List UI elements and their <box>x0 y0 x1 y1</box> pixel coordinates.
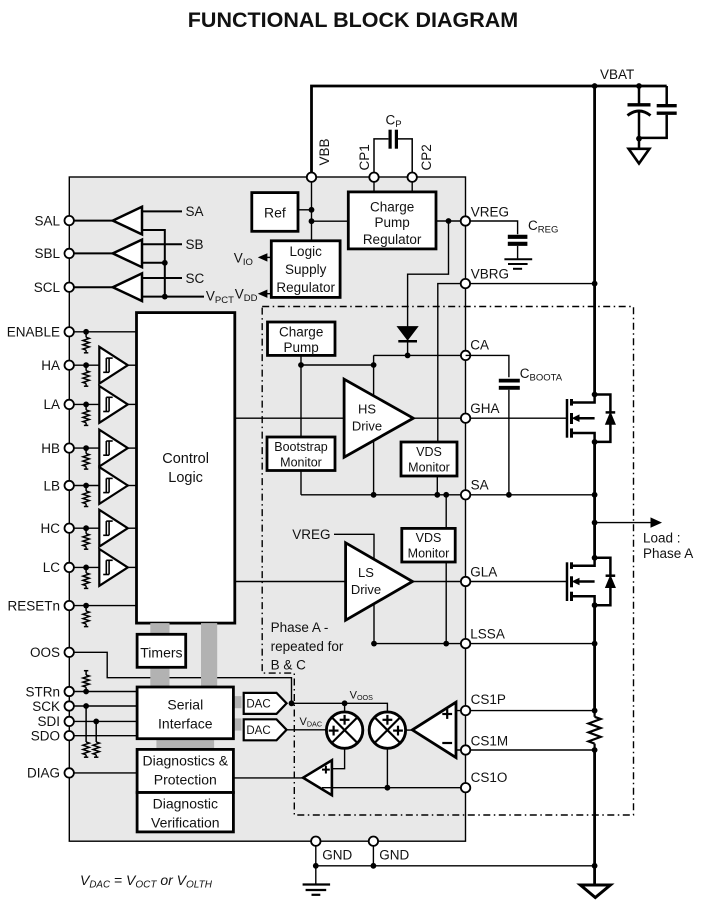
block Diagnostic Verification <box>137 793 233 832</box>
pin HA <box>65 361 74 370</box>
wire charge pump to CA rail <box>301 364 374 366</box>
wire SB input <box>142 243 182 245</box>
wire VDD arrow <box>267 293 272 295</box>
node VOOS junction <box>342 700 348 706</box>
node LA junction <box>83 402 89 408</box>
dac DAC1 <box>244 693 287 714</box>
schmitt buffer HA <box>99 347 128 384</box>
svg-text:VREG: VREG <box>292 527 330 542</box>
svg-text:DAC: DAC <box>246 699 270 711</box>
svg-text:Monitor: Monitor <box>408 460 450 474</box>
wire comparator out to diagnostics <box>233 777 303 779</box>
svg-text:Timers: Timers <box>140 644 182 660</box>
svg-text:CP2: CP2 <box>419 144 434 170</box>
svg-text:CS1M: CS1M <box>471 734 509 749</box>
wire VDAC <box>287 729 327 731</box>
block Diagnostics and Protection <box>137 749 233 792</box>
wire CA <box>374 354 466 356</box>
wire LB <box>74 485 100 487</box>
wire LA <box>74 403 100 405</box>
pin ENABLE <box>65 327 74 336</box>
summing node (right +) <box>369 712 405 748</box>
capacitor CBOOTA <box>499 379 520 383</box>
wire SCL to buffer <box>74 286 113 288</box>
svg-text:GND: GND <box>379 848 409 863</box>
bus bar control-timers <box>150 623 169 634</box>
node CS1P junction <box>592 708 598 714</box>
resistor pulldown LC <box>85 567 87 573</box>
wire CS1O <box>322 787 466 789</box>
node Ref junction <box>309 207 315 213</box>
schmitt buffer LA <box>99 386 128 423</box>
svg-text:VDS: VDS <box>416 445 442 459</box>
block Bootstrap Monitor <box>267 437 335 471</box>
wire phase rail HS-LS <box>593 442 596 558</box>
summing node (left +) <box>326 712 362 748</box>
svg-text:Pump: Pump <box>284 340 319 355</box>
svg-text:ENABLE: ENABLE <box>7 325 60 340</box>
pin SCK <box>65 701 74 710</box>
svg-text:Monitor: Monitor <box>408 547 450 561</box>
svg-text:LSSA: LSSA <box>470 626 505 641</box>
bus bar serial-DAC1 <box>233 696 241 708</box>
resistor pulldown ENABLE <box>85 332 87 338</box>
pin SCL <box>65 283 74 292</box>
wire SDI <box>74 720 137 722</box>
svg-text:B & C: B & C <box>271 658 307 673</box>
node SA junctions <box>371 492 377 498</box>
svg-text:HS: HS <box>358 402 376 417</box>
svg-text:Regulator: Regulator <box>276 280 335 295</box>
op-amp LS Drive <box>346 543 413 620</box>
pin CA <box>461 351 470 360</box>
node charge pump junction <box>298 362 304 368</box>
capacitor CREG <box>508 235 528 239</box>
ground (CREG, bar style) <box>504 258 532 260</box>
svg-text:Serial: Serial <box>167 696 203 712</box>
pin OOS <box>65 648 74 657</box>
wire SAL to buffer <box>74 220 113 222</box>
pin LA <box>65 400 74 409</box>
pin LB <box>65 481 74 490</box>
wire summer2 to CS amp <box>406 729 413 731</box>
wire LC buffer out <box>128 566 137 568</box>
svg-text:Protection: Protection <box>154 772 217 788</box>
svg-text:Phase A -: Phase A - <box>271 620 329 635</box>
op-amp HS Drive <box>344 379 413 457</box>
schmitt buffer HB <box>99 430 128 467</box>
wire VREG out <box>436 220 465 222</box>
svg-text:Pump: Pump <box>374 215 409 230</box>
wire HB <box>74 447 100 449</box>
wire LB buffer out <box>128 485 137 487</box>
bus bar serial-diagnostics <box>156 739 214 750</box>
node ground junctions <box>313 863 319 869</box>
svg-text:STRn: STRn <box>25 684 60 699</box>
transistor HS MOSFET <box>566 399 569 438</box>
wire LA buffer out <box>128 403 137 405</box>
node VPCT-SB junction <box>162 260 168 266</box>
wire VBRG to VDS monitor <box>438 284 461 442</box>
wire summer1 to verify comparator <box>332 748 345 768</box>
svg-text:SCK: SCK <box>32 699 60 714</box>
wire SBL to buffer <box>74 252 113 254</box>
pin CS1O <box>461 783 470 792</box>
buffer amp SBL <box>113 240 142 268</box>
svg-text:Verification: Verification <box>151 814 219 830</box>
wire VOOS to summers <box>292 703 388 712</box>
node load junction <box>592 520 598 526</box>
capacitor ceramic at VBAT <box>665 86 668 104</box>
transistor LS MOSFET <box>566 562 569 601</box>
resistor pulldown RESETn <box>85 606 87 612</box>
block VDS Monitor LS <box>402 528 455 562</box>
node VBB-CPR junction <box>309 218 315 224</box>
wire CBOOTA top <box>466 355 509 377</box>
wire Ref to VBB rail <box>298 209 312 211</box>
svg-text:Regulator: Regulator <box>363 232 422 247</box>
svg-text:Charge: Charge <box>370 199 414 214</box>
svg-text:GND: GND <box>322 848 352 863</box>
svg-text:HA: HA <box>41 358 60 373</box>
svg-text:Diagnostics &: Diagnostics & <box>143 753 229 769</box>
pin CP1 <box>369 173 378 182</box>
svg-text:DAC: DAC <box>246 725 270 737</box>
wire ENABLE to control logic <box>74 331 137 333</box>
wire SCK <box>74 705 137 707</box>
wire STRn <box>74 691 137 693</box>
svg-text:Charge: Charge <box>279 324 323 339</box>
wire control to HS drive <box>235 417 344 419</box>
node VPCT-SC junction <box>162 294 168 300</box>
svg-text:OOS: OOS <box>30 645 60 660</box>
pin LC <box>65 563 74 572</box>
wire CS1M <box>456 749 595 751</box>
node SDI junction <box>93 719 99 725</box>
svg-text:Ref: Ref <box>264 204 286 220</box>
block Control Logic <box>137 313 235 623</box>
block Timers <box>137 634 186 667</box>
buffer amp SCL <box>113 273 142 301</box>
svg-text:Drive: Drive <box>351 582 381 597</box>
svg-text:CA: CA <box>470 337 489 352</box>
wire RESETn to control logic <box>74 605 137 607</box>
pin LSSA <box>461 639 470 648</box>
pin SAL <box>65 216 74 225</box>
svg-text:SBL: SBL <box>34 246 60 261</box>
pin GLA <box>461 577 470 586</box>
svg-text:Control: Control <box>162 451 209 467</box>
node LC junction <box>83 565 89 571</box>
pin GHA <box>461 414 470 423</box>
svg-text:SA: SA <box>186 204 204 219</box>
wire HC buffer out <box>128 527 137 529</box>
node cap gnd junction <box>636 136 642 142</box>
svg-text:SB: SB <box>186 237 204 252</box>
svg-text:SAL: SAL <box>34 213 60 228</box>
svg-text:SDI: SDI <box>37 714 60 729</box>
pin HB <box>65 443 74 452</box>
wire GLA <box>413 581 568 583</box>
wire bootstrap monitor to SA <box>300 471 302 495</box>
pin GND2 <box>369 837 378 846</box>
wire ground bus <box>316 865 595 867</box>
svg-text:LS: LS <box>358 565 374 580</box>
svg-text:VBAT: VBAT <box>600 67 634 82</box>
svg-text:SA: SA <box>471 478 489 493</box>
pin STRn <box>65 687 74 696</box>
wire VREG to CREG <box>470 221 518 234</box>
node HB junction <box>83 445 89 451</box>
svg-text:Interface: Interface <box>158 715 213 731</box>
block Ref <box>252 193 298 232</box>
wire SDO <box>74 735 137 737</box>
schmitt buffer HC <box>99 510 128 547</box>
svg-text:SCL: SCL <box>34 280 61 295</box>
wire HA buffer out <box>128 364 137 366</box>
svg-text:VDS: VDS <box>416 531 442 545</box>
svg-text:VREG: VREG <box>471 204 509 219</box>
svg-text:Diagnostic: Diagnostic <box>153 795 218 811</box>
node bootstrap diode junction <box>405 353 411 359</box>
svg-text:FUNCTIONAL BLOCK DIAGRAM: FUNCTIONAL BLOCK DIAGRAM <box>188 8 518 32</box>
wire LS VDS monitor top <box>445 495 447 529</box>
wire VBAT rail down to HS drain <box>593 86 596 395</box>
block Charge Pump (phase) <box>268 322 336 355</box>
resistor pullup STRn <box>85 671 87 675</box>
svg-text:VBB: VBB <box>317 138 332 165</box>
op-amp current sense CS1 <box>412 702 456 757</box>
buffer amp SAL <box>113 207 142 235</box>
wire VBRG to VBAT rail <box>470 283 595 285</box>
svg-text:Drive: Drive <box>352 419 382 434</box>
wire VBB to VBAT rail (top) <box>312 86 667 177</box>
pin HC <box>65 524 74 533</box>
wire VDS monitor HS to SA <box>436 476 438 495</box>
pin SDI <box>65 717 74 726</box>
pin RESETn <box>65 601 74 610</box>
svg-text:SDO: SDO <box>31 729 60 744</box>
capacitor CP between CP1 and CP2 <box>374 139 388 173</box>
resistor pulldown SCK <box>85 706 87 742</box>
node CS1M junction <box>592 747 598 753</box>
node RESETn junction <box>83 603 89 609</box>
pin VBRG <box>461 279 470 288</box>
svg-text:CS1P: CS1P <box>471 692 506 707</box>
node STRn junction <box>83 689 89 695</box>
svg-text:LA: LA <box>43 397 60 412</box>
svg-text:LC: LC <box>43 560 61 575</box>
pin CS1P <box>461 706 470 715</box>
wire HA <box>74 364 100 366</box>
wire CS1P <box>456 710 595 712</box>
node DAC1-OOS junction <box>289 700 295 706</box>
resistor pulldown HC <box>85 528 87 534</box>
svg-text:HB: HB <box>41 441 60 456</box>
svg-text:RESETn: RESETn <box>7 598 60 613</box>
ground (GND pins, bar style) <box>303 883 331 885</box>
wire CP1 into charge pump regulator <box>373 182 375 192</box>
block Charge Pump Regulator <box>348 192 436 249</box>
pin VREG <box>461 216 470 225</box>
wire HB buffer out <box>128 447 137 449</box>
dac DAC2 <box>244 719 287 740</box>
wire DIAG <box>74 772 137 774</box>
node LB junction <box>83 483 89 489</box>
resistor pulldown LB <box>85 486 87 492</box>
wire HS drive supply (CA to SA through triangle) <box>373 355 375 494</box>
svg-text:CP1: CP1 <box>357 144 372 170</box>
svg-text:Bootstrap: Bootstrap <box>274 440 328 454</box>
svg-text:SC: SC <box>186 271 205 286</box>
wire VBB internal rail <box>311 182 313 241</box>
svg-text:repeated for: repeated for <box>271 639 344 654</box>
wire sense to ground <box>593 750 596 866</box>
resistor pulldown HA <box>85 365 87 371</box>
schmitt buffer LB <box>99 467 128 504</box>
pin GND1 <box>311 837 320 846</box>
node VBAT junction <box>592 83 598 89</box>
capacitor bulk electrolytic at VBAT <box>638 86 641 104</box>
svg-text:GHA: GHA <box>470 401 499 416</box>
bus bar serial-DAC2 <box>233 718 241 730</box>
svg-text:CS1O: CS1O <box>471 770 508 785</box>
svg-text:Load :: Load : <box>643 531 681 546</box>
svg-text:Phase A: Phase A <box>643 546 693 561</box>
resistor pulldown LA <box>85 404 87 410</box>
node CS1O junction <box>385 785 391 791</box>
node LSSA junctions <box>371 641 377 647</box>
op-amp diagnostic comparator <box>303 760 332 795</box>
wire VPCT reference rail <box>142 230 204 297</box>
wire SA input <box>142 210 182 212</box>
wire charge pump to bootstrap monitor <box>300 355 302 437</box>
bus bar timers-serial <box>150 667 169 687</box>
wire LC <box>74 566 100 568</box>
wire GND1 down <box>315 846 317 884</box>
svg-text:HC: HC <box>41 521 61 536</box>
schmitt buffer LC <box>99 549 128 586</box>
bus bar control-serial <box>201 623 217 687</box>
wire LS VDS monitor to LSSA <box>445 562 447 644</box>
ground (VBAT caps, triangle) <box>638 139 641 148</box>
pin CP2 <box>408 173 417 182</box>
pin SA <box>461 490 470 499</box>
block Serial Interface <box>137 687 233 739</box>
wire LSSA <box>374 643 595 645</box>
resistor pulldown HB <box>85 448 87 454</box>
resistor pulldown SDI <box>95 721 97 742</box>
node VREG junction <box>446 218 452 224</box>
svg-text:Supply: Supply <box>285 262 327 277</box>
wire control to LS drive <box>235 581 346 583</box>
wire VREG to LS drive <box>334 534 374 643</box>
block VDS Monitor HS <box>401 442 457 476</box>
wire HC <box>74 527 100 529</box>
wire VIO arrow <box>267 256 272 258</box>
wire GHA <box>413 417 567 419</box>
node VBRG-VBAT junction <box>592 281 598 287</box>
block Logic Supply Regulator <box>271 241 340 298</box>
pin DIAG <box>65 768 74 777</box>
wire SC input <box>142 277 182 279</box>
phase A boundary (dash-dot) <box>262 307 633 816</box>
svg-text:GLA: GLA <box>470 564 497 579</box>
IC body (gray block) <box>69 177 465 841</box>
wire GND2 down <box>372 846 374 866</box>
wire load arrow <box>595 522 654 524</box>
svg-text:Logic: Logic <box>290 244 323 259</box>
wire VBB rail to charge pump regulator <box>312 220 349 222</box>
svg-text:LB: LB <box>43 478 60 493</box>
pin CS1M <box>461 745 470 754</box>
wire CP2 into charge pump regulator <box>411 182 413 192</box>
wire LS source rail <box>593 605 596 713</box>
wire OOS to VOOS node <box>74 652 292 703</box>
ground (power stage, triangle) <box>593 866 596 884</box>
node SCK junction <box>83 703 89 709</box>
pin SBL <box>65 249 74 258</box>
svg-text:Logic: Logic <box>168 470 203 486</box>
svg-text:Monitor: Monitor <box>280 455 322 469</box>
svg-text:VBRG: VBRG <box>471 267 509 282</box>
diode bootstrap <box>398 327 417 340</box>
wire SA <box>301 494 595 496</box>
node CA-HS junction <box>371 362 377 368</box>
node ENABLE junction <box>83 329 89 335</box>
svg-text:DIAG: DIAG <box>27 766 60 781</box>
wire VREG to bootstrap diode <box>408 221 449 355</box>
node HC junction <box>83 525 89 531</box>
resistor sense <box>593 711 595 717</box>
pin VBB <box>307 173 316 182</box>
wire summer2 to CS1O <box>386 748 388 787</box>
pin SDO <box>65 731 74 740</box>
node HA junction <box>83 362 89 368</box>
